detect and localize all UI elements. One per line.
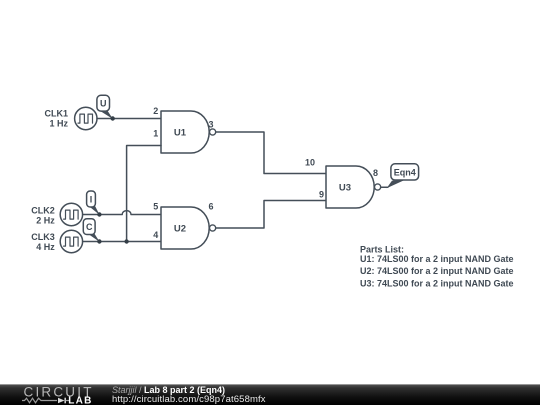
svg-text:U3: 74LS00 for a 2 input NAND: U3: 74LS00 for a 2 input NAND Gate <box>360 279 514 289</box>
svg-text:10: 10 <box>305 158 315 168</box>
svg-text:U2: 74LS00 for a 2 input NAND: U2: 74LS00 for a 2 input NAND Gate <box>360 266 514 276</box>
flag C <box>83 219 99 242</box>
op-gate U1 (NAND) <box>161 111 216 153</box>
flag I <box>87 191 100 215</box>
svg-text:4 Hz: 4 Hz <box>36 242 55 252</box>
wire U1 pin 1 to CLK3 net <box>127 146 161 242</box>
svg-text:U: U <box>100 99 107 109</box>
label CLK3 4 Hz <box>31 232 55 252</box>
op-gate U3 (NAND) <box>326 166 381 208</box>
logo diode <box>58 398 69 404</box>
junction dot on CLK3 wire (flag C tap) <box>97 239 101 243</box>
svg-text:4: 4 <box>153 230 158 240</box>
svg-text:CLK2: CLK2 <box>31 205 55 215</box>
svg-text:3: 3 <box>208 119 213 129</box>
flag U <box>97 95 113 119</box>
logo resistor <box>22 398 57 403</box>
svg-text:CLK1: CLK1 <box>44 108 68 118</box>
svg-text:6: 6 <box>208 202 213 212</box>
svg-text:U1: U1 <box>174 127 187 138</box>
svg-text:2 Hz: 2 Hz <box>36 215 55 225</box>
wire CLK3 to U2 pin 4 <box>83 241 161 243</box>
svg-text:1 Hz: 1 Hz <box>49 118 68 128</box>
wire U2 pin 6 to U3 pin 9 <box>216 201 326 229</box>
svg-text:5: 5 <box>153 202 158 212</box>
svg-text:8: 8 <box>373 168 378 178</box>
parts list annotation <box>360 244 514 288</box>
junction dot on CLK2 wire <box>97 212 101 216</box>
svg-text:CLK3: CLK3 <box>31 232 55 242</box>
clock source CLK3 <box>60 230 82 252</box>
junction dot vertical wire to CLK3 net <box>124 239 128 243</box>
footer title and url text <box>112 384 412 405</box>
svg-text:LAB: LAB <box>68 395 92 405</box>
wire CLK2 to U2 pin 5 with hop over vertical wire <box>83 211 161 215</box>
wire CLK1 to U1 pin 2 <box>97 118 161 120</box>
svg-text:2: 2 <box>153 106 158 116</box>
clock source CLK1 <box>75 107 97 129</box>
svg-text:1: 1 <box>153 129 158 139</box>
svg-text:C: C <box>86 222 93 232</box>
svg-text:Parts List:: Parts List: <box>360 244 404 254</box>
wire U3 output stub <box>381 186 388 188</box>
svg-text:9: 9 <box>319 189 324 199</box>
flag Eqn4 <box>387 164 419 189</box>
wire U1 pin 3 to U3 pin 10 <box>216 132 326 174</box>
clock source CLK2 <box>60 203 82 225</box>
svg-text:Eqn4: Eqn4 <box>394 167 416 177</box>
svg-text:U3: U3 <box>339 182 351 193</box>
footer bar <box>0 384 540 405</box>
label CLK2 2 Hz <box>31 205 55 225</box>
svg-text:U2: U2 <box>174 223 186 234</box>
junction dot on CLK1 wire <box>111 116 115 120</box>
svg-text:I: I <box>90 194 93 204</box>
svg-text:U1: 74LS00 for a 2 input NAND: U1: 74LS00 for a 2 input NAND Gate <box>360 254 514 264</box>
label CLK1 1 Hz <box>44 108 68 128</box>
op-gate U2 (NAND) <box>161 207 216 249</box>
